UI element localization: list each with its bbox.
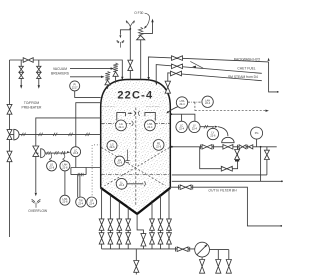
svg-text:22-8: 22-8 — [49, 166, 55, 169]
faint level marks right — [146, 106, 160, 108]
svg-text:22C-4: 22C-4 — [117, 89, 153, 101]
signal curve to control valve — [218, 127, 228, 136]
pipe pump discharge — [202, 250, 229, 260]
hatch h2 — [55, 151, 59, 154]
hatch s5 — [86, 133, 90, 136]
pipe recirc line — [172, 174, 267, 176]
svg-text:VACUUM: VACUUM — [53, 67, 67, 71]
vacuum breaker VB2 spring — [105, 72, 110, 81]
svg-text:OVERFLOW: OVERFLOW — [28, 209, 48, 213]
spray hook a — [134, 111, 136, 116]
instrument LHA 22-4 top — [176, 97, 187, 108]
valve apex drop — [141, 234, 146, 246]
overflow funnel — [32, 199, 41, 208]
valve V-header (bowtie) — [23, 58, 33, 63]
LL tap hook — [144, 181, 146, 186]
note leader arrowhead — [144, 26, 147, 29]
valve out-filter (bowtie) — [180, 185, 191, 190]
pipe PSV outlet — [141, 22, 152, 34]
pipe CHET FUEL line — [156, 65, 262, 82]
valve drop L1 lower — [99, 233, 104, 244]
drain funnel small — [117, 40, 124, 47]
capillary break ticks — [78, 173, 83, 176]
valve drop R3 lower — [167, 233, 172, 244]
valve preheater B upper — [37, 66, 41, 72]
leader to vacuum breaker 1 — [70, 68, 111, 70]
valve preheater A upper — [19, 66, 23, 72]
arrow on vent branch — [119, 35, 121, 38]
instrument LG 22-6 (in vessel left) — [107, 141, 117, 151]
valve recirc — [264, 150, 269, 159]
PI tap line — [75, 91, 101, 98]
vessel internal diagonal brace B — [105, 148, 170, 186]
note leader swoosh — [145, 13, 150, 28]
junction dot drop — [260, 146, 262, 148]
pipe drop to lower line — [260, 147, 262, 182]
pipe recirc drop — [266, 147, 268, 175]
level line hook right — [145, 121, 147, 126]
arrow signal line — [266, 110, 269, 112]
valve pump drain 2 — [216, 260, 221, 274]
signal drop dashed — [194, 102, 196, 110]
dip tube bracket left — [117, 113, 126, 121]
arrow backwash into dome — [147, 77, 149, 81]
leader LHA arrowhead — [166, 111, 169, 114]
vacuum breaker VB1 seat — [113, 72, 118, 77]
check arrow main line — [249, 145, 253, 149]
instrument LHA 22-4 (in vessel) — [145, 120, 156, 131]
valve drop R3 upper — [167, 219, 172, 230]
valve backwash (bowtie) — [172, 56, 183, 61]
line jump break on fuel line — [190, 61, 203, 68]
valve below header — [134, 261, 139, 273]
hatch s3 — [53, 133, 57, 136]
horn2 stub — [36, 152, 39, 154]
pipe bypass loop — [200, 147, 238, 169]
arrow PSV outlet up — [151, 19, 153, 23]
valve on left line 1 — [7, 104, 12, 114]
pipe lower outlet line — [172, 180, 282, 182]
vacuum breaker VB1 spring — [113, 63, 118, 72]
eductor horn 1 — [14, 129, 19, 140]
internal probe stub — [125, 150, 129, 163]
vessel center dashed line — [135, 108, 137, 206]
dip tube bracket right — [145, 113, 155, 121]
pipe apex drop — [137, 214, 143, 249]
LL 22-4 tap line — [127, 183, 143, 185]
hatch h3 — [61, 151, 65, 154]
pipe PSV inlet — [140, 40, 142, 80]
vessel internal level line (lower) — [101, 173, 170, 175]
svg-text:22-6: 22-6 — [109, 146, 115, 149]
pipe bottom drop L1 — [101, 188, 103, 249]
vessel internal level line (upper) — [101, 122, 170, 124]
pipe BACKWASH H2O line — [148, 57, 268, 77]
PG stub — [256, 139, 258, 147]
signal line LHA-LAH — [188, 101, 202, 103]
hatch s1 — [22, 133, 26, 136]
wavy drop to LAH 22-8 — [63, 153, 65, 161]
valve main line gate 2 — [239, 145, 246, 149]
instrument LAH 22-4 top — [202, 96, 213, 107]
spray hook b — [138, 111, 140, 116]
vessel internal diagonal brace A — [102, 148, 166, 186]
instrument LL 22-4 (in vessel bottom) — [116, 178, 127, 189]
instrument LG 22-4 (in vessel) — [116, 120, 127, 131]
vacuum breaker VB2 pipe — [107, 85, 109, 89]
svg-text:PG: PG — [255, 132, 259, 135]
hatch s2 — [39, 133, 43, 136]
arrow overflow — [35, 193, 37, 197]
pipe bottom drop L3 — [118, 201, 120, 249]
valve on vent riser — [128, 60, 133, 70]
valve drop R1 upper — [150, 219, 155, 230]
pipe LAH to LHA — [64, 171, 66, 195]
hatch s4 — [69, 133, 73, 136]
instrument LR 22-4 — [87, 197, 97, 207]
pipe below header drain — [135, 249, 137, 275]
level line hook left — [132, 121, 134, 126]
displacer drops — [71, 168, 86, 175]
valve pump drain 3 — [226, 260, 231, 274]
pipe main outlet line — [172, 146, 277, 148]
valve drop L4 upper — [126, 219, 131, 230]
faint level marks left — [102, 106, 115, 108]
arrow preheater B — [38, 85, 40, 89]
end dot out-filter — [280, 225, 282, 227]
valve main line gate 1 — [202, 145, 212, 150]
svg-text:OUT to FILTER BH: OUT to FILTER BH — [208, 189, 237, 193]
arrow backwash corner up — [268, 58, 270, 61]
pump internals arrowhead — [204, 244, 207, 247]
pipe instrument web top — [171, 114, 195, 121]
pipe vent riser — [129, 27, 131, 81]
pipe preheater A — [20, 60, 22, 86]
leader arrow 2 — [101, 76, 105, 78]
leader to vacuum breaker 2 — [70, 76, 101, 78]
signal line long dashed — [195, 110, 266, 112]
svg-text:22-6: 22-6 — [156, 145, 162, 148]
svg-text:22-6: 22-6 — [117, 162, 123, 165]
valve steam (bowtie) — [171, 71, 182, 76]
svg-text:BREAKERS: BREAKERS — [51, 72, 70, 76]
svg-text:22-4: 22-4 — [89, 202, 95, 205]
wavy drop to LG 22-8 — [50, 153, 52, 161]
pipe bottom header — [102, 248, 195, 250]
valve drop L3 lower — [117, 233, 122, 244]
valve drop L1 upper — [99, 219, 104, 230]
svg-text:22-4: 22-4 — [118, 126, 124, 129]
instrument LC 22-4 — [176, 121, 187, 132]
thermowell twin leads — [78, 175, 80, 198]
pipe out to filter — [171, 187, 281, 226]
vacuum breaker VB2 seat — [105, 80, 110, 85]
pipe top-left header — [10, 60, 123, 77]
instrument LG 22-6b (in vessel) — [115, 156, 125, 166]
pump P-1 casing — [195, 242, 210, 257]
valve steam riser — [165, 81, 170, 93]
valve drop R2 lower — [158, 233, 163, 244]
end dot backwash — [277, 91, 279, 93]
valve drop L2 lower — [108, 233, 113, 244]
pipe standpipe bottom — [71, 157, 101, 168]
nozzle dot main line — [171, 146, 173, 148]
pipe bottom drop R2 — [160, 196, 162, 249]
control valve actuator dome — [222, 137, 234, 142]
arrow LY signal — [215, 126, 218, 128]
valve preheater A lower — [19, 72, 23, 78]
valve bypass riser — [235, 150, 240, 160]
valve bypass (bowtie) — [221, 166, 232, 171]
svg-text:22-4: 22-4 — [147, 126, 153, 129]
svg-text:22-4: 22-4 — [78, 202, 84, 205]
instrument TW 22-4 — [76, 197, 86, 207]
svg-text:2217: 2217 — [72, 86, 78, 89]
control valve body — [223, 145, 233, 150]
relief valve PSV-1 base — [137, 35, 145, 39]
arrow preheater A — [20, 85, 22, 89]
pipe backwash corner drop — [269, 62, 278, 92]
hatch h1 — [47, 151, 51, 154]
pipe overflow — [36, 118, 101, 192]
leader arrow 1 — [111, 67, 115, 69]
pump P-1 internals — [197, 244, 208, 255]
pipe bottom drop R3 — [168, 189, 170, 249]
valve on left line 2 — [7, 130, 12, 140]
svg-text:O F30: O F30 — [134, 11, 143, 15]
valve overflow — [33, 146, 39, 156]
svg-text:BACKWASH H2O: BACKWASH H2O — [234, 58, 261, 62]
instrument PI 2217 — [70, 81, 80, 91]
leader LHA to vessel — [168, 107, 178, 113]
eductor horn 2 — [41, 149, 46, 158]
signal LY to valve — [200, 126, 214, 128]
vessel 22C-4 shell fill (stipple) — [101, 80, 171, 214]
valve preheater B lower — [37, 72, 41, 78]
svg-text:22-4: 22-4 — [192, 127, 198, 130]
valve fuel (bowtie) — [172, 64, 183, 69]
LY 22-6 stub — [212, 127, 214, 129]
vessel 22C-4 conical bottom — [101, 188, 171, 214]
pipe bottom drop R1 — [151, 202, 153, 249]
pipe left main vertical — [9, 60, 11, 237]
svg-text:22-4: 22-4 — [179, 103, 185, 106]
vessel 22C-4 dome and side walls — [101, 80, 171, 188]
valve bypass riser closed base — [235, 160, 239, 162]
junction dot on vent riser — [129, 28, 131, 30]
pipe bottom drop L2 — [109, 195, 111, 249]
svg-text:SM STEAM from D4: SM STEAM from D4 — [228, 75, 258, 79]
pipe standpipe top — [76, 103, 101, 147]
junction dot web — [170, 113, 172, 115]
svg-text:22-4: 22-4 — [205, 102, 211, 105]
vent cup — [126, 21, 134, 27]
pipe horn2 to LC — [45, 152, 67, 154]
pipe vent branch — [120, 30, 130, 35]
pipe sparge main — [19, 133, 101, 135]
instrument FE 22-6 (in vessel right) — [153, 140, 164, 151]
svg-text:22-4: 22-4 — [179, 127, 185, 130]
valve pump drain 1 — [200, 260, 205, 274]
relief valve PSV-1 spring — [138, 27, 142, 35]
instrument LC 22-8 — [71, 147, 81, 157]
instrument LY 22-6 — [207, 128, 218, 139]
dashed tap to LR — [92, 145, 101, 197]
arrow into dome from header — [121, 77, 123, 81]
svg-text:22-8: 22-8 — [62, 166, 68, 169]
valve drop L2 upper — [108, 219, 113, 230]
instrument LHA 22-8 — [60, 195, 70, 205]
svg-text:22-8: 22-8 — [62, 201, 68, 204]
hatch on LY signal — [204, 125, 208, 128]
instrument LY 22-4 — [189, 121, 200, 132]
spray arrowhead left — [130, 112, 133, 114]
instrument PG — [251, 127, 263, 139]
svg-text:PREHEATER: PREHEATER — [22, 105, 43, 109]
spray arrow left — [128, 112, 131, 114]
valve pump suction (bowtie) — [177, 247, 188, 252]
valve drop R1 lower — [150, 233, 155, 244]
end dot lower outlet — [281, 180, 283, 182]
arrow fuel into dome — [155, 82, 157, 86]
valve drop R2 upper — [158, 219, 163, 230]
arrow into LC 22-8 — [67, 151, 70, 153]
instrument LAH 22-8 — [60, 161, 70, 171]
svg-text:CHET FUEL: CHET FUEL — [237, 67, 255, 71]
pipe preheater B — [38, 60, 40, 86]
svg-text:22-6: 22-6 — [210, 134, 216, 137]
valve on left line 3 — [7, 151, 12, 162]
instrument LG 22-8 — [47, 161, 57, 171]
pipe bottom drop L4 — [127, 208, 129, 249]
valve drop L3 upper — [117, 219, 122, 230]
svg-text:22-4: 22-4 — [119, 184, 125, 187]
pipe SM STEAM line — [168, 73, 262, 96]
vacuum breaker VB1 pipe — [115, 76, 117, 83]
horn1 stub — [10, 134, 14, 136]
arrow on fuel line — [192, 66, 196, 68]
svg-text:22-8: 22-8 — [73, 152, 79, 155]
valve drop L4 lower — [126, 233, 131, 244]
